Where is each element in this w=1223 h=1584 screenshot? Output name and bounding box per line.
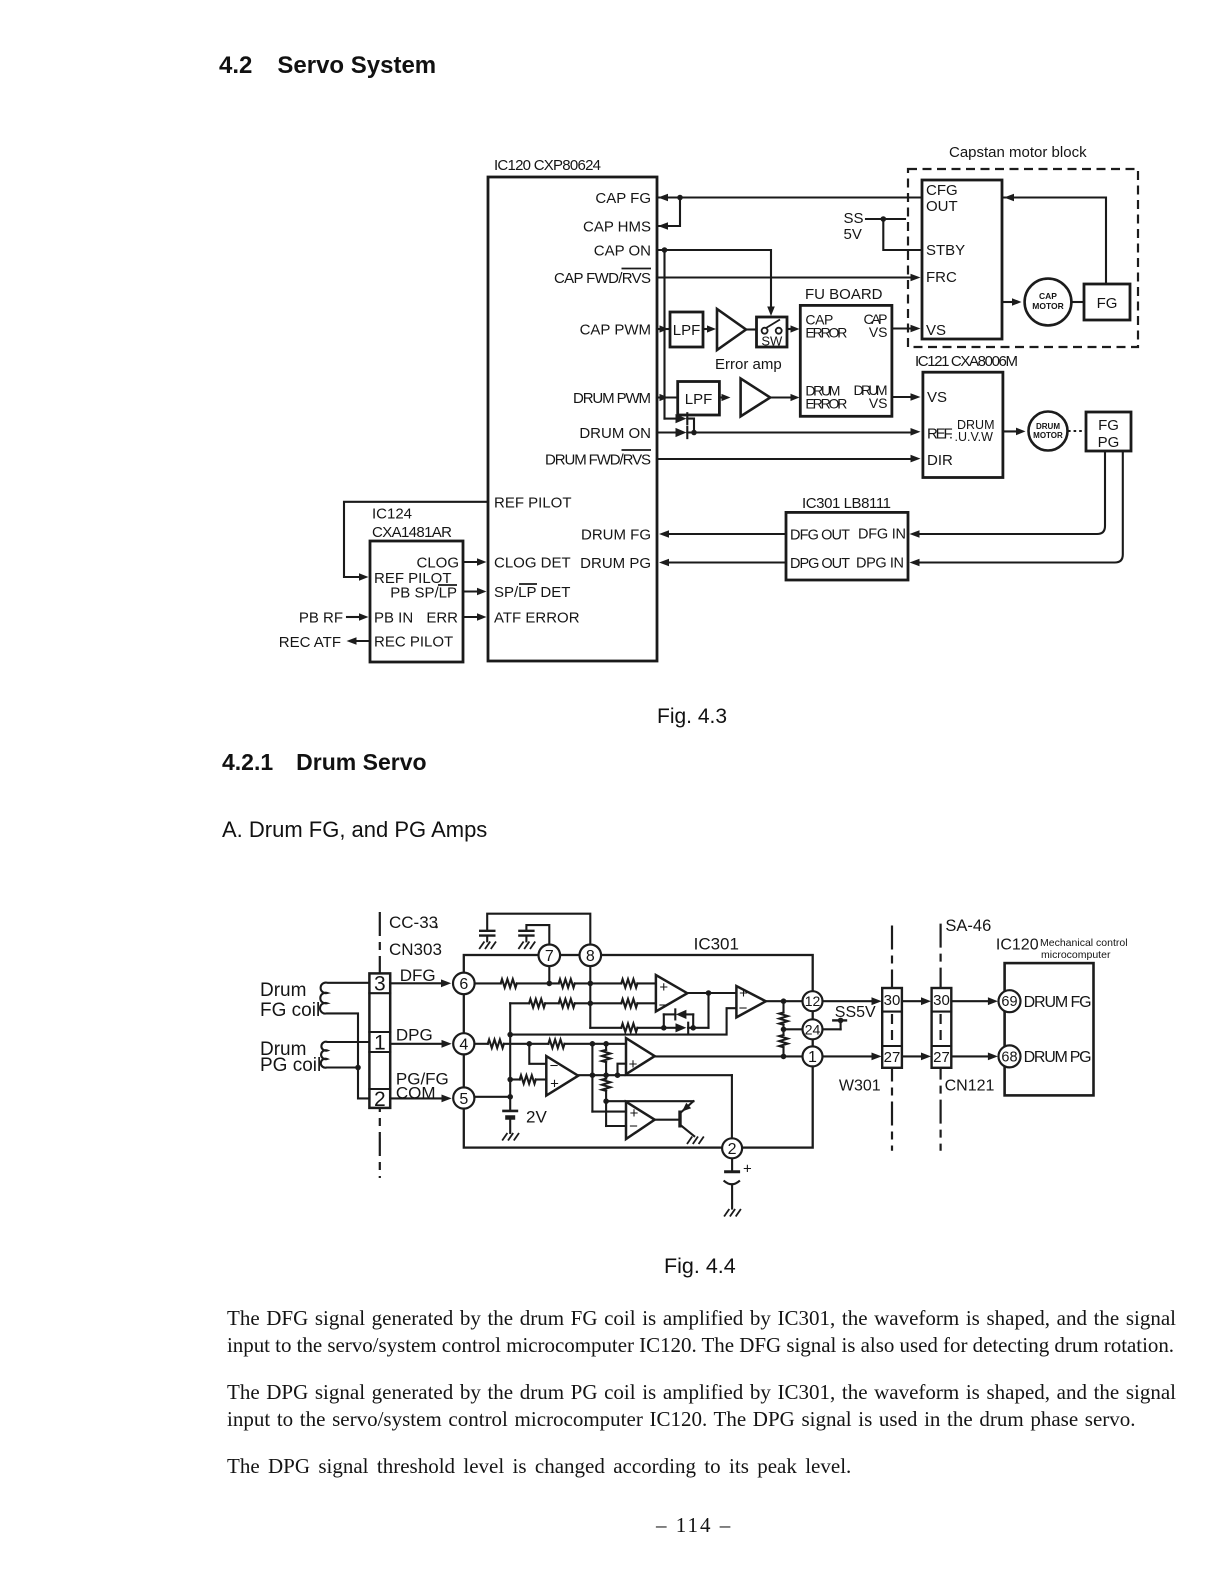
svg-text:DRUM FG: DRUM FG — [581, 527, 651, 544]
svg-text:1: 1 — [808, 1049, 817, 1066]
svg-text:PB RF: PB RF — [299, 610, 343, 627]
svg-text:24: 24 — [805, 1021, 821, 1037]
svg-text:LPF: LPF — [685, 391, 713, 408]
svg-text:DRUM PG: DRUM PG — [1024, 1049, 1092, 1066]
svg-text:CAP FG: CAP FG — [595, 190, 651, 207]
svg-text:30: 30 — [884, 992, 901, 1009]
svg-text:IC124: IC124 — [372, 506, 412, 523]
svg-text:5V: 5V — [844, 226, 862, 243]
svg-text:DFG: DFG — [400, 966, 436, 985]
svg-text:CAP FWD/RVS: CAP FWD/RVS — [554, 270, 651, 287]
svg-text:1: 1 — [374, 1032, 386, 1055]
svg-text:REF PILOT: REF PILOT — [494, 494, 572, 511]
svg-text:PG: PG — [1098, 434, 1120, 451]
svg-text:PB SP/LP: PB SP/LP — [390, 585, 457, 602]
svg-text:−: − — [659, 997, 668, 1014]
svg-text:30: 30 — [933, 992, 950, 1009]
svg-text:+: + — [659, 979, 668, 996]
svg-text:CXA1481AR: CXA1481AR — [372, 524, 452, 541]
svg-text:DPG IN: DPG IN — [856, 556, 904, 572]
svg-text:CAP ON: CAP ON — [594, 243, 651, 260]
svg-text:CC-33: CC-33 — [389, 913, 438, 932]
svg-text:69: 69 — [1001, 994, 1017, 1010]
svg-text:2: 2 — [728, 1141, 737, 1158]
svg-text:CN121: CN121 — [945, 1078, 995, 1095]
svg-text:−: − — [629, 1118, 638, 1135]
svg-text:Drum: Drum — [260, 980, 306, 1001]
svg-text:REC PILOT: REC PILOT — [374, 634, 453, 651]
svg-text:ERROR: ERROR — [805, 396, 847, 412]
svg-text:IC120 CXP80624: IC120 CXP80624 — [494, 157, 601, 174]
svg-text:CLOG DET: CLOG DET — [494, 555, 571, 572]
svg-text:CAP PWM: CAP PWM — [580, 322, 651, 339]
svg-text:27: 27 — [933, 1049, 950, 1066]
svg-text:MOTOR: MOTOR — [1032, 301, 1063, 311]
svg-text:.U.V.W: .U.V.W — [955, 430, 994, 444]
svg-text:12: 12 — [805, 993, 821, 1009]
svg-text:PB IN: PB IN — [374, 610, 413, 627]
svg-text:IC120: IC120 — [996, 937, 1039, 954]
svg-text:ERR: ERR — [426, 610, 458, 627]
svg-text:VS: VS — [869, 324, 888, 340]
svg-text:Capstan motor block: Capstan motor block — [949, 144, 1087, 161]
svg-text:−: − — [550, 1057, 559, 1074]
svg-text:SP/LP DET: SP/LP DET — [494, 584, 570, 601]
svg-text:VS: VS — [927, 389, 947, 406]
svg-text:microcomputer: microcomputer — [1041, 949, 1111, 961]
svg-text:68: 68 — [1001, 1049, 1017, 1065]
svg-text:−: − — [739, 1000, 748, 1017]
svg-text:DRUM PG: DRUM PG — [580, 555, 651, 572]
svg-text:DRUM PWM: DRUM PWM — [573, 390, 651, 407]
svg-text:+: + — [550, 1075, 559, 1092]
svg-text:ATF ERROR: ATF ERROR — [494, 610, 580, 627]
svg-text:5: 5 — [459, 1091, 468, 1108]
svg-text:SA-46: SA-46 — [945, 917, 991, 935]
svg-text:PG coil: PG coil — [260, 1055, 321, 1076]
svg-text:+: + — [629, 1056, 638, 1073]
svg-text:STBY: STBY — [926, 242, 965, 259]
svg-text:4: 4 — [459, 1037, 468, 1054]
svg-text:DFG OUT: DFG OUT — [790, 528, 850, 544]
svg-text:LPF: LPF — [673, 322, 701, 339]
svg-text:VS: VS — [926, 322, 946, 339]
svg-text:ERROR: ERROR — [805, 325, 847, 341]
svg-text:COM: COM — [396, 1083, 436, 1102]
svg-text:27: 27 — [884, 1049, 901, 1066]
svg-text:6: 6 — [459, 976, 468, 993]
svg-text:FG coil: FG coil — [260, 1000, 320, 1021]
svg-text:DIR: DIR — [927, 452, 953, 469]
svg-text:FU BOARD: FU BOARD — [805, 286, 883, 303]
svg-text:7: 7 — [545, 948, 554, 965]
svg-text:FG: FG — [1097, 295, 1118, 312]
svg-text:SW: SW — [761, 334, 783, 349]
svg-text:3: 3 — [374, 973, 386, 996]
svg-text:CLOG: CLOG — [416, 555, 459, 572]
svg-text:REC ATF: REC ATF — [280, 634, 341, 651]
svg-text:2V: 2V — [526, 1108, 547, 1127]
svg-text:DPG OUT: DPG OUT — [790, 556, 850, 572]
svg-text:FG: FG — [1098, 417, 1119, 434]
svg-text:IC301: IC301 — [694, 935, 739, 954]
svg-text:DRUM FWD/RVS: DRUM FWD/RVS — [545, 452, 651, 469]
svg-text:OUT: OUT — [926, 198, 958, 215]
svg-text:DRUM: DRUM — [1036, 422, 1060, 431]
svg-text:+: + — [743, 1161, 752, 1178]
svg-text:CN303: CN303 — [389, 940, 442, 959]
svg-text:SS5V: SS5V — [835, 1004, 876, 1021]
svg-text:DRUM FG: DRUM FG — [1024, 994, 1092, 1011]
svg-text:IC301 LB8111: IC301 LB8111 — [802, 495, 891, 512]
svg-text:VS: VS — [869, 395, 888, 411]
svg-text:FRC: FRC — [926, 269, 957, 286]
svg-text:CAP: CAP — [1039, 291, 1057, 301]
svg-text:CFG: CFG — [926, 182, 958, 199]
svg-text:MOTOR: MOTOR — [1033, 431, 1063, 440]
svg-text:DPG: DPG — [396, 1025, 433, 1044]
svg-text:IC121 CXA8006M: IC121 CXA8006M — [915, 353, 1018, 370]
svg-text:Mechanical control: Mechanical control — [1040, 937, 1128, 949]
svg-text:DRUM ON: DRUM ON — [579, 425, 651, 442]
svg-text:W301: W301 — [839, 1078, 881, 1095]
svg-text:DFG IN: DFG IN — [858, 527, 906, 543]
svg-text:SS: SS — [844, 210, 864, 227]
svg-text:REF.: REF. — [927, 425, 953, 442]
svg-text:8: 8 — [586, 948, 595, 965]
svg-text:2: 2 — [374, 1088, 386, 1111]
svg-text:CAP HMS: CAP HMS — [583, 219, 651, 236]
svg-text:Error amp: Error amp — [715, 356, 782, 373]
